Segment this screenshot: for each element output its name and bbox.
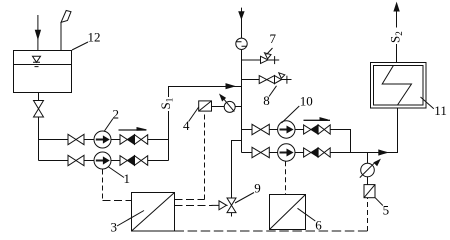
svg-text:7: 7	[270, 31, 277, 46]
svg-text:10: 10	[300, 93, 313, 108]
svg-text:6: 6	[315, 217, 322, 232]
svg-text:9: 9	[254, 180, 260, 195]
svg-text:4: 4	[183, 118, 190, 133]
svg-text:8: 8	[263, 93, 270, 108]
svg-text:12: 12	[88, 30, 101, 45]
svg-text:11: 11	[434, 103, 447, 118]
svg-text:2: 2	[113, 107, 120, 122]
svg-text:5: 5	[383, 203, 390, 218]
svg-text:1: 1	[124, 171, 131, 186]
svg-text:3: 3	[111, 220, 118, 235]
